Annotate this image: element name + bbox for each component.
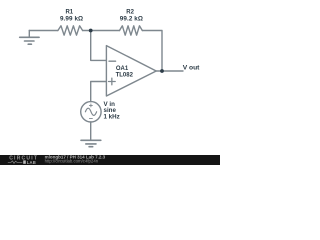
- svg-text:OA1: OA1: [116, 66, 129, 72]
- svg-text:TL082: TL082: [116, 72, 134, 78]
- resistor R2: [120, 26, 143, 35]
- wire R2 to output node (feedback right side): [142, 31, 162, 72]
- wire R1 to node A and R2: [83, 30, 120, 32]
- svg-text:R2: R2: [126, 9, 134, 15]
- ground GND1 (top-left): [20, 31, 39, 45]
- wire node A down to inverting input: [91, 31, 107, 61]
- minus polarity mark in V1: [89, 117, 92, 119]
- wire ground to R1: [29, 30, 58, 32]
- wire non-inverting input to source: [91, 82, 107, 102]
- wire V1 to ground: [90, 122, 92, 140]
- voltage source V1 circle: [81, 102, 101, 122]
- ground GND2 (bottom): [81, 140, 101, 146]
- plus polarity mark in V1: [89, 104, 92, 107]
- CircuitLab logo orange block: [23, 160, 26, 163]
- sine wave glyph inside V1: [85, 108, 96, 115]
- svg-text:99.2 kΩ: 99.2 kΩ: [120, 16, 143, 23]
- resistor R1: [58, 26, 83, 35]
- op-amp OA1 triangle: [106, 46, 156, 96]
- footer bar: [0, 155, 220, 165]
- wire op-amp output to V out: [156, 70, 183, 72]
- output node junction dot: [160, 69, 164, 73]
- svg-text:1 kHz: 1 kHz: [104, 114, 120, 121]
- node A junction dot: [89, 29, 93, 33]
- op-amp minus sign: [109, 60, 116, 62]
- svg-text:V out: V out: [183, 65, 200, 72]
- svg-text:R1: R1: [65, 9, 73, 15]
- svg-text:http://circuitlab.com/c4fp24n: http://circuitlab.com/c4fp24n: [45, 159, 99, 164]
- svg-text:LAB: LAB: [27, 160, 36, 165]
- CircuitLab logo scope trace: [8, 161, 22, 164]
- svg-text:9.99 kΩ: 9.99 kΩ: [60, 16, 83, 23]
- op-amp plus sign: [109, 78, 116, 85]
